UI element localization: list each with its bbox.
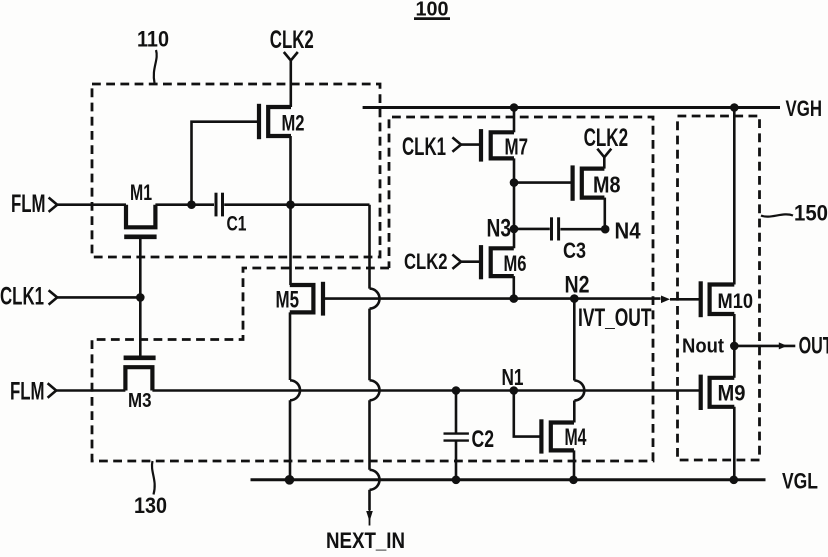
svg-text:C2: C2	[472, 426, 495, 453]
wire NEXT_IN vertical	[368, 205, 371, 289]
wire M5 source down to VGL with hop over FLM wire	[289, 312, 292, 380]
svg-text:CLK1: CLK1	[0, 284, 44, 311]
node VGH-M7 junction	[510, 103, 519, 112]
wire gate vertical M1-CLK1-M3	[139, 237, 142, 358]
wire Nout to OUT	[734, 345, 795, 348]
svg-text:FLM: FLM	[10, 379, 45, 406]
wire M6 source to N2	[512, 276, 515, 299]
svg-text:110: 110	[137, 27, 169, 52]
node M8 gate tap	[510, 178, 519, 187]
arrow OUT	[779, 342, 788, 349]
wire M10 to Nout	[733, 314, 736, 378]
dashed box 130 + inverter section (combined stepped outline)	[92, 117, 653, 461]
capacitor C1	[215, 193, 218, 217]
svg-text:C1: C1	[227, 213, 247, 236]
dashed box 110	[92, 84, 380, 257]
wire N3 to C3	[514, 228, 550, 231]
svg-text:N4: N4	[615, 218, 641, 244]
svg-text:CLK2: CLK2	[404, 249, 448, 274]
svg-text:M9: M9	[718, 381, 746, 406]
wire CLK1 to gate node	[57, 296, 140, 299]
wire M8 gate lead	[514, 181, 573, 184]
svg-text:M4: M4	[565, 424, 587, 451]
arrow NEXT_IN	[366, 511, 373, 522]
leader 130	[152, 461, 155, 495]
wire C1 to NEXT_IN corner	[224, 203, 369, 206]
transistor M3	[125, 367, 152, 390]
node M2 source junction	[286, 200, 295, 209]
node M4-VGL junction	[569, 476, 578, 485]
svg-text:OUT: OUT	[799, 332, 828, 359]
leader 110	[154, 50, 157, 83]
wire M5 gate lead	[323, 297, 365, 300]
wire M7 source down to N3/M6	[513, 158, 516, 248]
transistor M4	[541, 419, 574, 453]
transistor M7	[461, 129, 514, 162]
node N3	[510, 225, 519, 234]
wire M2 source down to M5	[289, 136, 292, 285]
wire M3 to N1 run	[152, 389, 700, 392]
capacitor C3	[550, 217, 553, 240]
svg-text:VGH: VGH	[786, 96, 823, 121]
wire M9 source to VGL	[733, 407, 736, 480]
node M5-VGL junction	[285, 475, 295, 485]
svg-text:CLK1: CLK1	[402, 134, 446, 161]
svg-text:M10: M10	[718, 289, 754, 313]
VGH rail	[363, 106, 780, 109]
wire CLK2 down to M2	[289, 61, 292, 108]
wire C3 to N4	[560, 228, 605, 231]
wire N2 down to M4 with hop over N1	[573, 299, 576, 381]
node C2-VGL junction	[452, 476, 461, 485]
svg-text:FLM: FLM	[11, 191, 46, 218]
svg-text:C3: C3	[563, 238, 586, 263]
svg-text:IVT_OUT: IVT_OUT	[578, 305, 652, 332]
wire M8 source to N4	[603, 198, 606, 230]
svg-text:M6: M6	[504, 251, 527, 276]
node N2	[570, 294, 579, 303]
node M9-VGL junction	[730, 476, 739, 485]
wire M2 gate	[192, 122, 260, 205]
transistor M6	[461, 245, 514, 279]
svg-text:CLK2: CLK2	[584, 125, 629, 152]
dashed box 150	[678, 116, 760, 460]
wire CLK2 to M8	[603, 157, 606, 168]
svg-text:M8: M8	[593, 172, 621, 198]
svg-text:130: 130	[134, 493, 167, 518]
svg-text:M2: M2	[282, 111, 305, 136]
svg-text:M5: M5	[276, 287, 300, 314]
svg-text:150: 150	[794, 200, 828, 225]
transistor M8	[573, 165, 605, 200]
svg-text:N2: N2	[565, 272, 590, 299]
wire N1 tap down to C2	[455, 391, 458, 434]
transistor M2	[259, 104, 291, 139]
svg-text:M1: M1	[130, 180, 152, 205]
svg-text:N1: N1	[502, 364, 524, 390]
svg-text:NEXT_IN: NEXT_IN	[326, 528, 405, 552]
wire FLM to M1	[57, 203, 126, 206]
node C2 tap	[452, 386, 461, 395]
node M1/M3 gate junction	[136, 293, 145, 302]
svg-text:M7: M7	[505, 134, 529, 160]
svg-text:CLK2: CLK2	[270, 27, 314, 54]
wire M1 to C1	[155, 203, 214, 206]
node M6-N2 junction	[510, 294, 519, 303]
node Nout	[730, 342, 739, 351]
svg-text:Nout: Nout	[682, 336, 724, 358]
wire M4 source to VGL	[573, 450, 576, 479]
capacitor C2	[444, 432, 469, 434]
wire N1 to M4 gate	[514, 391, 542, 437]
wire C2 to VGL	[455, 441, 458, 480]
svg-text:N3: N3	[487, 216, 512, 243]
svg-text:VGL: VGL	[782, 469, 818, 494]
wire VGH to M10	[733, 108, 736, 285]
transistor M5	[290, 282, 323, 316]
transistor M10	[701, 281, 735, 317]
node N4	[601, 225, 610, 234]
svg-text:M3: M3	[128, 389, 152, 412]
node VGH right junction	[730, 103, 739, 112]
wire FLM to M3	[56, 389, 125, 392]
wire M5 gate to N2 to M10	[365, 297, 514, 300]
node C1 left junction	[187, 200, 196, 209]
leader 150	[761, 214, 793, 216]
arrow into M10	[661, 296, 670, 304]
transistor M9	[701, 375, 735, 410]
VGL rail	[251, 478, 766, 481]
node N1	[510, 386, 519, 395]
transistor M1	[126, 205, 155, 228]
wire VGH to M7	[513, 108, 516, 133]
